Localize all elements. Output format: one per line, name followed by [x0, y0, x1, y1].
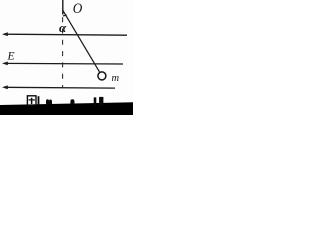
- field line E2 (middle, arrow left): [2, 62, 123, 66]
- pendulum string: [63, 10, 100, 72]
- field line E3 (bottom, arrow left): [2, 85, 115, 89]
- caption glyph top: CJK box (tu): [27, 96, 36, 106]
- svg-text:m: m: [112, 73, 120, 84]
- caption glyph top: 1: [94, 97, 97, 105]
- svg-text:O: O: [73, 0, 83, 17]
- caption glyph top: 2: [70, 99, 74, 104]
- dashed vertical reference line: [62, 17, 64, 88]
- caption glyph top: dash hump: [46, 99, 52, 104]
- background: [0, 0, 133, 115]
- angle arc: [63, 15, 67, 16]
- pivot support line (solid vertical at O): [62, 0, 64, 15]
- svg-text:E: E: [7, 51, 15, 63]
- caption glyph top: 5: [99, 97, 103, 106]
- ball (charged sphere): [98, 72, 106, 80]
- svg-text:α: α: [59, 20, 67, 35]
- field line E1 (top, arrow left): [2, 32, 127, 36]
- caption glyph top: 8 (left stroke): [38, 96, 40, 105]
- black crop band at bottom: [0, 102, 133, 115]
